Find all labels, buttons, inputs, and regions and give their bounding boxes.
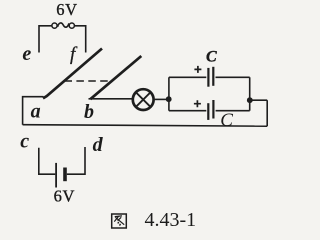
battery left lead wire <box>39 148 56 174</box>
lamp L1 <box>133 89 154 110</box>
node R junction dot <box>247 97 253 103</box>
svg-text:C: C <box>220 110 233 131</box>
svg-text:f: f <box>70 44 78 65</box>
lower branch wire right <box>216 110 250 112</box>
capacitor loop left vertical wire <box>168 77 170 110</box>
switch blade 2 (pole b) <box>90 56 141 99</box>
AC source terminal circle left <box>52 23 57 28</box>
capacitor C2 (bottom) plates <box>208 100 213 120</box>
svg-text:6V: 6V <box>54 187 75 206</box>
svg-text:c: c <box>20 131 29 153</box>
svg-text:6V: 6V <box>56 0 77 19</box>
node L junction dot <box>166 96 172 102</box>
svg-text:d: d <box>93 134 104 156</box>
capacitor loop right vertical wire <box>249 77 251 110</box>
caption hanzi TU (figure) drawn glyph <box>112 214 127 228</box>
switch gang coupling dashed link <box>65 80 111 82</box>
top branch wire left <box>169 76 206 78</box>
battery right lead wire <box>67 147 85 174</box>
bottom bus wire <box>23 125 268 127</box>
top branch wire right <box>216 76 250 78</box>
svg-text:e: e <box>22 43 31 65</box>
switch blade 1 (pole a) <box>43 49 102 99</box>
AC source left bracket wire <box>39 26 52 53</box>
wire from pole a down-left to bottom bus <box>23 97 44 125</box>
AC source right bracket wire <box>75 26 86 53</box>
plus sign of bottom capacitor <box>194 100 201 107</box>
svg-text:4.43-1: 4.43-1 <box>145 209 197 231</box>
svg-text:a: a <box>31 101 41 123</box>
wire lamp to node L <box>154 98 166 100</box>
svg-text:C: C <box>206 48 217 65</box>
AC source terminal circle right <box>69 23 74 28</box>
battery negative plate (short thick) <box>63 168 67 182</box>
svg-text:b: b <box>84 101 94 123</box>
AC source sine tilde <box>58 23 69 27</box>
battery positive plate (long) <box>55 163 57 188</box>
lower branch wire left <box>169 110 206 112</box>
wire node R to right edge <box>250 99 267 101</box>
plus sign of top capacitor <box>194 66 201 73</box>
capacitor C1 (top) plates <box>208 67 213 87</box>
right edge riser wire <box>266 100 268 126</box>
wire pole b to lamp <box>89 98 133 100</box>
